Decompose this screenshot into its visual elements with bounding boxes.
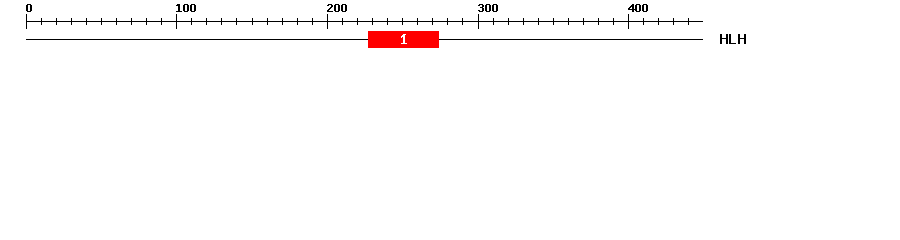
minor tick 260 <box>417 18 418 25</box>
sequence line <box>26 39 703 40</box>
ruler label 100 <box>176 4 196 12</box>
letter L <box>729 34 731 44</box>
domain number 1 (white) <box>401 34 407 44</box>
minor tick 410 <box>643 18 644 25</box>
minor tick 440 <box>688 18 689 25</box>
minor tick 170 <box>282 18 283 25</box>
ruler label 0 <box>26 4 32 12</box>
minor tick 150 <box>252 18 253 25</box>
minor tick 330 <box>523 18 524 25</box>
minor tick 370 <box>583 18 584 25</box>
minor tick 60 <box>116 18 117 25</box>
minor tick 430 <box>673 18 674 25</box>
background <box>0 0 900 58</box>
minor tick 360 <box>568 18 569 25</box>
major tick 200 <box>327 14 328 29</box>
ruler label 300 <box>478 4 498 12</box>
major tick 300 <box>478 14 479 29</box>
minor tick 320 <box>508 18 509 25</box>
minor tick 230 <box>372 18 373 25</box>
major tick 100 <box>176 14 177 29</box>
minor tick 270 <box>432 18 433 25</box>
domain box 1 (red, residues ~227-273) <box>368 31 439 48</box>
minor tick 50 <box>101 18 102 25</box>
minor tick 40 <box>86 18 87 25</box>
minor tick 210 <box>342 18 343 25</box>
minor tick 250 <box>402 18 403 25</box>
minor tick 340 <box>538 18 539 25</box>
ruler label 200 <box>327 4 347 12</box>
ruler label 400 <box>628 4 648 12</box>
major tick 0 <box>26 14 27 29</box>
minor tick 310 <box>493 18 494 25</box>
minor tick 380 <box>598 18 599 25</box>
minor tick 350 <box>553 18 554 25</box>
minor tick 180 <box>297 18 298 25</box>
minor tick 70 <box>131 18 132 25</box>
minor tick 130 <box>221 18 222 25</box>
minor tick 280 <box>447 18 448 25</box>
minor tick 140 <box>236 18 237 25</box>
major tick 400 <box>628 14 629 29</box>
minor tick 220 <box>357 18 358 25</box>
letter H <box>720 34 722 44</box>
domain label HLH <box>720 34 746 44</box>
minor tick 20 <box>56 18 57 25</box>
minor tick 80 <box>146 18 147 25</box>
minor tick 30 <box>71 18 72 25</box>
minor tick 90 <box>161 18 162 25</box>
ruler axis line <box>26 21 703 22</box>
minor tick 190 <box>312 18 313 25</box>
minor tick 240 <box>387 18 388 25</box>
letter H <box>738 34 740 44</box>
minor tick 390 <box>613 18 614 25</box>
minor tick 290 <box>462 18 463 25</box>
minor tick 120 <box>206 18 207 25</box>
minor tick 10 <box>41 18 42 25</box>
minor tick 110 <box>191 18 192 25</box>
minor tick 160 <box>267 18 268 25</box>
minor tick 420 <box>658 18 659 25</box>
